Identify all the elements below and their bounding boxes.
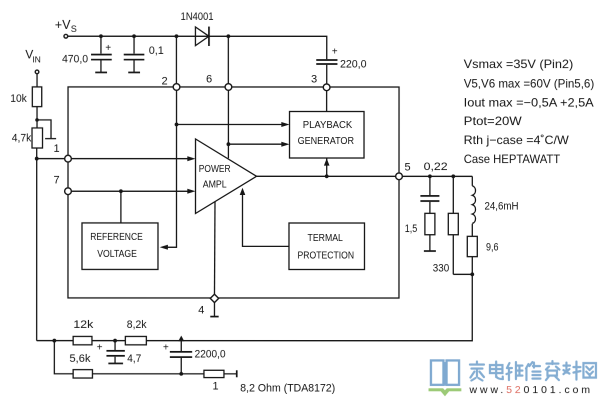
svg-text:6: 6 [206,73,212,85]
junction top rail at pin6 branch [226,34,230,38]
wire pin3 to playback generator top [326,91,328,112]
potentiometer 4,7k [32,128,43,148]
capacitor 0,22 [420,176,439,213]
svg-text:Rth j−case =4˚C/W: Rth j−case =4˚C/W [464,133,570,147]
diode 1N4001 [195,27,209,46]
svg-text:1,5: 1,5 [405,223,418,235]
capacitor 4,7 [106,341,124,364]
wire output down to feedback row [37,274,473,341]
junction bottom row at 2200,0 [179,372,183,376]
pin 4 diamond [210,294,218,302]
svg-text:PLAYBACK: PLAYBACK [303,119,352,131]
junction feedback at 4,7 cap [113,339,117,343]
svg-text:+V: +V [55,18,71,32]
junction pin2 line to playback row [175,123,179,127]
svg-text:4: 4 [198,304,204,316]
svg-text:12k: 12k [73,319,94,331]
svg-text:2: 2 [162,75,168,87]
resistor 5,6k [73,370,92,378]
svg-text:S: S [71,24,77,34]
svg-text:5: 5 [405,161,411,173]
svg-text:470,0: 470,0 [62,53,88,65]
resistor 9,6 [467,236,477,274]
pin 1 [65,155,72,162]
svg-text:+: + [332,47,338,58]
svg-text:8,2 Ohm (TDA8172): 8,2 Ohm (TDA8172) [240,382,335,394]
wire feedback left node down to bottom row [54,341,236,374]
arrow junction at 2200,0 [178,336,184,342]
svg-text:24,6mH: 24,6mH [484,201,518,213]
junction pin1 node [35,157,39,161]
svg-text:V5,V6 max =60V (Pin5,6): V5,V6 max =60V (Pin5,6) [464,76,595,90]
arrow into reference voltage right [160,245,168,250]
svg-text:330: 330 [433,263,450,275]
svg-text:www.520101.com: www.520101.com [468,384,592,396]
ground below pin4 [210,303,218,317]
op-amp POWER AMPL [195,139,256,214]
svg-text:VOLTAGE: VOLTAGE [97,248,137,260]
pin 5 [396,173,403,180]
svg-text:4,7: 4,7 [127,353,141,365]
arrow into playback generator upper [281,122,289,127]
svg-text:Iout max =−0,5A +2,5A: Iout max =−0,5A +2,5A [464,96,594,110]
svg-text:REFERENCE: REFERENCE [90,231,143,243]
junction pin6 line to playback row [227,142,231,146]
junction pin7 row to reference voltage [119,189,123,193]
svg-text:0,22: 0,22 [424,161,448,173]
svg-text:220,0: 220,0 [340,58,367,70]
svg-text:Ptot=20W: Ptot=20W [464,114,523,128]
resistor 1 (speaker) [204,370,224,377]
arrow into amp from termal protection [240,188,246,195]
junction feedback left node [52,339,56,343]
wire pin6 to playback generator [228,143,283,145]
junction top rail at pin2 branch [175,34,179,38]
node Vin input terminal [35,70,39,74]
watermark book icon [431,360,459,385]
svg-text:1: 1 [54,143,60,155]
svg-text:5,6k: 5,6k [69,353,91,365]
svg-text:IN: IN [32,55,41,65]
svg-text:AMPL: AMPL [203,179,227,191]
wire 10k to pot [36,107,38,128]
pin 6 [225,84,232,91]
svg-text:0,1: 0,1 [149,45,164,57]
label Vin [25,47,41,64]
label +Vs [55,18,77,34]
svg-text:+: + [163,343,169,354]
resistor 330 [448,176,472,274]
node +Vs supply terminal [64,34,68,38]
end bar speaker row [236,370,238,377]
block PLAYBACK GENERATOR [290,111,365,158]
wire Vin to 10k [36,74,38,87]
capacitor 470,0 [91,36,112,72]
wire termal protection to amp [242,193,289,246]
junction output at 330 [451,174,455,178]
wire pot to pin1 node [36,148,38,159]
svg-text:3: 3 [311,73,317,85]
wire pin6 branch from rail [227,36,229,84]
junction top rail at 470u cap [99,34,103,38]
svg-text:9,6: 9,6 [486,241,499,253]
svg-text:+: + [105,43,111,54]
arrow into playback generator lower [281,142,289,147]
capacitor 0,1 [124,36,145,72]
arrow amp input lower [187,189,195,194]
block REFERENCE VOLTAGE [82,223,158,270]
svg-text:Vsmax =35V (Pin2): Vsmax =35V (Pin2) [464,57,574,71]
junction output at 0,22 [428,174,432,178]
wire top supply rail [68,36,327,59]
watermark chinese text 家电维修资料网 [470,361,596,381]
resistor 12k [73,336,92,344]
svg-text:2200,0: 2200,0 [195,348,226,360]
wire pin2 branch from rail [175,36,177,84]
svg-text:Case HEPTAWATT: Case HEPTAWATT [464,152,561,166]
wire playback generator to output node [326,158,328,176]
resistor 1,5 [425,213,435,234]
svg-text:POWER: POWER [199,163,231,175]
wire pin6 internal down [227,90,229,158]
svg-text:PROTECTION: PROTECTION [297,249,354,261]
svg-text:7: 7 [54,174,60,186]
wire amp to pin4 [213,202,216,294]
junction top rail at 0,1 cap [132,34,136,38]
svg-text:GENERATOR: GENERATOR [298,135,355,147]
svg-text:TERMAL: TERMAL [307,232,343,244]
svg-text:1N4001: 1N4001 [181,11,214,23]
resistor 8,2k [125,336,146,344]
wire pot wiper [37,120,56,139]
watermark green ribbon [429,388,462,396]
pin 2 [173,84,180,91]
wire pin1 to amp input [71,158,189,160]
capacitor 2200,0 [170,341,192,374]
svg-text:10k: 10k [10,93,27,105]
capacitor 220,0 [316,60,337,84]
wire amp output to pin5 [257,175,396,177]
wire pin2 internal down [163,90,176,247]
inductor 24,6mH [472,176,475,236]
svg-text:+: + [97,342,103,353]
wire pin2 to playback generator [177,123,284,125]
wire pin1 node to feedback row [36,159,38,341]
wire pin7 to amp input [71,190,189,192]
block TERMAL PROTECTION [289,223,365,270]
wire to reference voltage top [120,191,122,223]
junction speaker node [470,272,474,276]
pin 7 [65,188,72,195]
svg-text:1: 1 [212,380,218,392]
svg-text:8,2k: 8,2k [127,319,147,331]
wire node to pin1 [37,158,65,160]
arrow amp input upper [187,156,195,161]
junction pot top [35,118,39,122]
pin 3 [323,84,330,91]
svg-text:4,7k: 4,7k [12,132,32,144]
junction output node at playback [325,174,329,178]
wire 1,5 to end bar [424,235,436,251]
wire pin5 to output corner [402,175,472,177]
resistor 10k [32,87,41,107]
arrow into playback generator bottom [324,158,330,165]
IC outline TDA8172 [68,87,399,298]
